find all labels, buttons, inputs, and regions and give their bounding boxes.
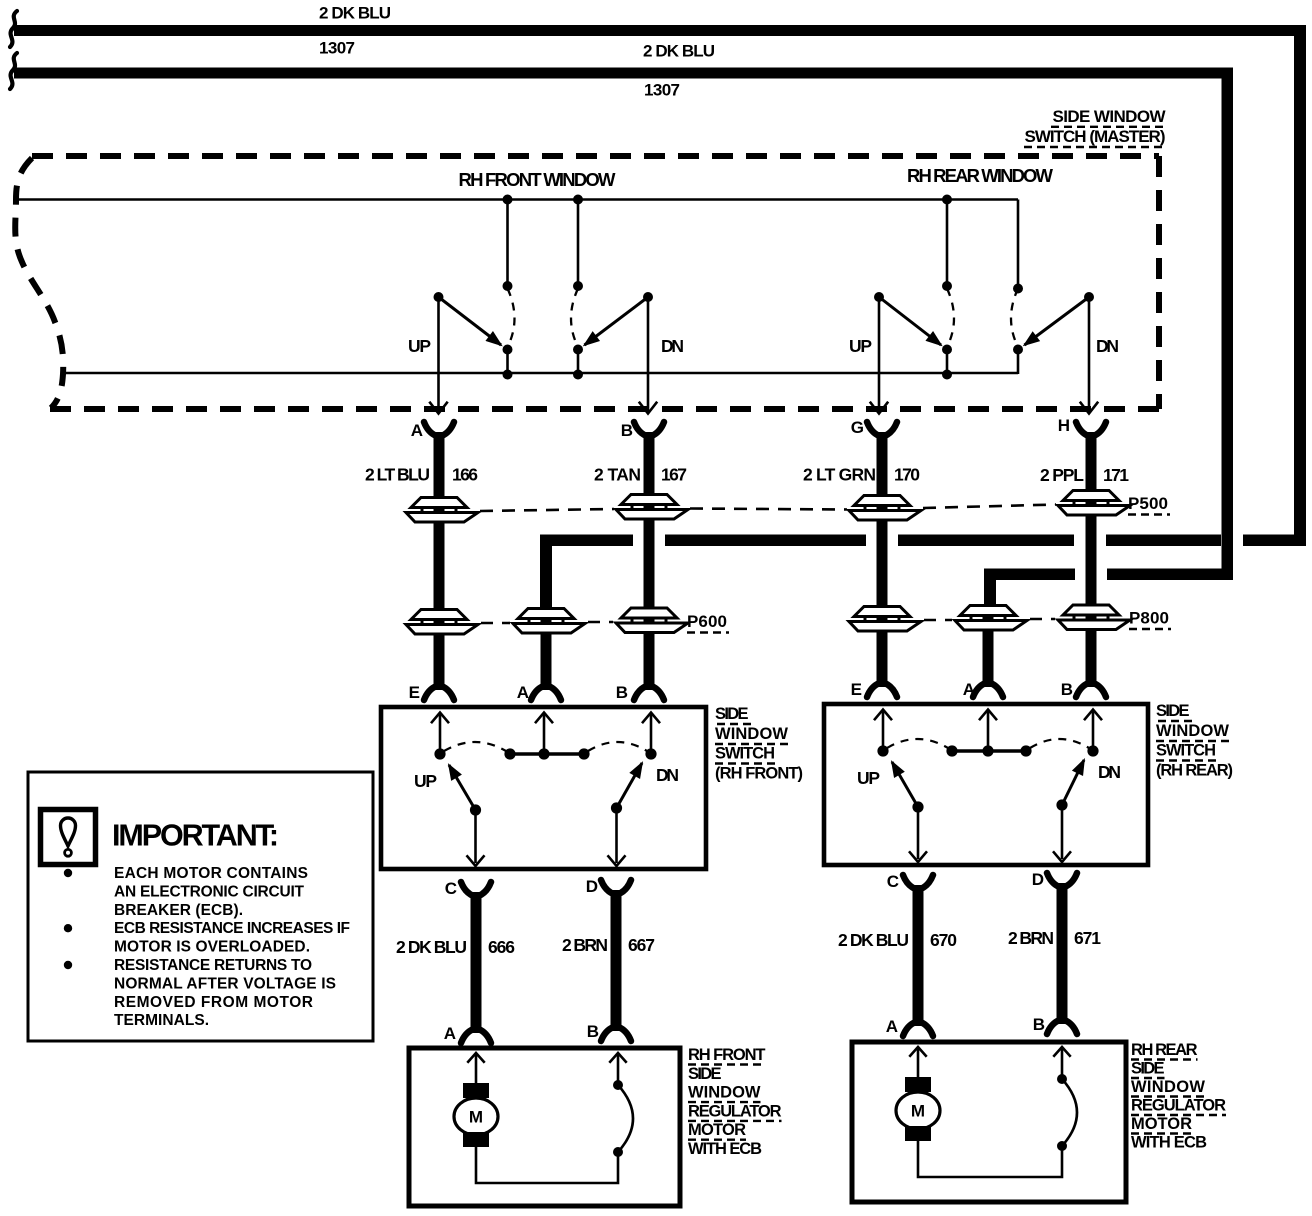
wire from terminal H down to P500: [1086, 442, 1097, 498]
wire 2 BRN 671 rear: [1057, 893, 1068, 1017]
svg-text:2 BRN: 2 BRN: [562, 935, 608, 955]
wire into side window switch at x=882: [877, 638, 888, 676]
master switch bus wire top horizontal: [17, 198, 1018, 201]
dashed travel arc front window pivot 2: [571, 289, 578, 348]
svg-text:B: B: [1033, 1015, 1045, 1034]
RH front side window regulator motor with ECB input arrow A: [475, 1055, 478, 1083]
important icon exclamation teardrop: [61, 818, 76, 846]
svg-text:SIDE: SIDE: [688, 1065, 722, 1083]
side window switch RH front blade arrow to DN: [617, 763, 643, 808]
connector P800 cavity E: [849, 607, 921, 632]
dashed underline P600: [687, 631, 729, 633]
motor M RH front side window regulator motor with ECB: [454, 1098, 498, 1135]
side window switch (master) dashed box bottom border: [50, 406, 1159, 412]
side window switch RH front input arrow terminal E: [439, 715, 442, 755]
side window switch RH rear blade arrow to DN: [1062, 760, 1084, 805]
wire W1 return horizontal segment 5: [1243, 535, 1306, 547]
svg-text:DN: DN: [656, 765, 679, 785]
side window switch (master) dashed box right border: [1156, 156, 1162, 409]
side window switch RH front blade arrow to UP: [449, 765, 476, 810]
terminal fork (male) at x=882: [867, 683, 880, 697]
RH front side window regulator motor with ECB input arrow B: [617, 1055, 620, 1085]
svg-text:E: E: [851, 680, 862, 699]
svg-text:SIDE: SIDE: [1156, 702, 1190, 720]
wire 2 DK BLU 670 rear: [913, 895, 924, 1019]
svg-text:671: 671: [1074, 928, 1101, 948]
wire W1 return horizontal segment 3: [898, 535, 1074, 547]
junction dot on top bus at rear window pivot 1: [942, 195, 952, 205]
svg-text:(RH REAR): (RH REAR): [1156, 762, 1233, 780]
side window switch RH front input arrow terminal B: [650, 715, 653, 755]
connector P500 cavity B: [616, 495, 688, 520]
side window switch RH rear contact dot E: [877, 745, 888, 756]
svg-text:2 BRN: 2 BRN: [1008, 928, 1054, 948]
svg-text:SWITCH: SWITCH: [1156, 742, 1216, 760]
side window switch RH front box: [381, 707, 706, 869]
terminal fork (male) at x=988: [973, 683, 986, 697]
side window switch RH front common dot C side: [470, 804, 481, 815]
side window switch RH rear link bar dot left: [946, 745, 957, 756]
important icon exclamation dot: [65, 849, 72, 856]
terminal B fork front: [601, 1027, 614, 1041]
side window switch RH front dashed travel arc DN: [588, 742, 647, 751]
master switch bus wire bottom horizontal: [65, 372, 1018, 375]
wire into side window switch at x=439: [434, 640, 445, 679]
svg-text:BREAKER (ECB).: BREAKER (ECB).: [114, 902, 243, 919]
svg-text:1307: 1307: [319, 39, 355, 58]
connector P600 cavity E: [406, 610, 478, 635]
wire W1 continuation squiggle at left: [10, 11, 17, 47]
svg-text:UP: UP: [857, 768, 880, 788]
wire rear pivot 2 contact to bottom bus corner: [1017, 350, 1020, 375]
svg-text:B: B: [587, 1022, 599, 1041]
side window switch RH rear common dot C side: [912, 801, 923, 812]
moving contact dot rear window pivot 1: [942, 345, 952, 355]
side window switch RH front input arrow terminal A: [543, 715, 546, 755]
terminal fork (male) at x=1091: [1076, 683, 1089, 697]
dashed travel arc rear window pivot 2: [1011, 289, 1018, 348]
side window switch RH rear input arrow terminal A: [987, 712, 990, 752]
svg-text:WINDOW: WINDOW: [715, 725, 788, 743]
terminal fork (male) at x=649: [634, 686, 647, 700]
wire terminal B through P500: [644, 495, 655, 612]
bullet point: [64, 924, 72, 932]
RH rear side window regulator motor with ECB input arrow B: [1061, 1049, 1064, 1079]
svg-text:UP: UP: [849, 336, 872, 356]
RH rear side window regulator motor with ECB motor brush bottom: [905, 1126, 931, 1141]
switch blade arrow front UP: [439, 297, 502, 345]
svg-text:RESISTANCE RETURNS TO: RESISTANCE RETURNS TO: [114, 957, 312, 974]
wire P600 B column: [644, 612, 655, 640]
connector P800 cavity A: [955, 606, 1027, 631]
junction dot on top bus at front window pivot 1: [503, 195, 513, 205]
svg-text:2 TAN: 2 TAN: [594, 465, 641, 485]
moving contact dot front window pivot 2: [573, 345, 583, 355]
wire from terminal B down to P500: [644, 442, 655, 498]
moving contact dot rear window pivot 2: [1013, 345, 1023, 355]
terminal D fork rear: [1047, 873, 1060, 887]
svg-text:WINDOW: WINDOW: [1156, 722, 1229, 740]
svg-text:DN: DN: [1096, 336, 1119, 356]
wire W1 return horizontal segment 1: [540, 535, 633, 547]
wire front window pivot 2 vertical: [577, 200, 580, 287]
terminal C fork rear: [903, 875, 916, 889]
dashed underline P800: [1129, 628, 1171, 630]
svg-text:666: 666: [488, 937, 515, 957]
wire front window pivot 1 contact to bottom bus: [506, 350, 509, 375]
wire terminal G through P500: [877, 496, 888, 612]
svg-text:SIDE: SIDE: [715, 705, 749, 723]
pivot dot front window pivot 2: [573, 281, 583, 291]
terminal fork (male) at x=439: [424, 686, 437, 700]
side window switch RH rear output arrow C: [917, 807, 920, 859]
connector P600 cavity A: [513, 609, 585, 634]
svg-text:REGULATOR: REGULATOR: [688, 1102, 782, 1120]
svg-text:167: 167: [661, 465, 687, 485]
bullet point: [64, 869, 72, 877]
svg-text:A: A: [963, 680, 975, 699]
RH front side window regulator motor with ECB ECB lower dot: [613, 1147, 623, 1157]
side window switch RH front common dot D side: [611, 802, 622, 813]
junction dot on bottom bus at front window pivot 1: [503, 370, 513, 380]
terminal G fork at master switch: [867, 422, 880, 436]
wire into side window switch at x=649: [644, 640, 655, 679]
side window switch RH front contact dot E: [434, 748, 445, 759]
side window switch RH rear blade arrow to UP: [892, 762, 918, 807]
dashed link P500 G-H: [923, 505, 1056, 509]
wire front window pivot 2 contact to bottom bus: [577, 350, 580, 375]
wire P600 A column: [541, 610, 552, 640]
wire rear window pivot 1 contact to bottom bus: [946, 350, 949, 375]
svg-text:170: 170: [894, 465, 920, 485]
terminal H fork at master switch: [1076, 422, 1089, 436]
svg-text:DN: DN: [1098, 762, 1121, 782]
svg-text:B: B: [616, 683, 628, 702]
svg-text:AN ELECTRONIC CIRCUIT: AN ELECTRONIC CIRCUIT: [114, 883, 305, 900]
side window switch RH rear dashed travel arc DN: [1030, 739, 1089, 748]
wire W1 right vertical: [1294, 25, 1306, 546]
wire front window pivot 1 vertical: [506, 200, 509, 287]
moving contact dot front window pivot 1: [503, 345, 513, 355]
dashed underline P500: [1128, 513, 1170, 515]
svg-text:TERMINALS.: TERMINALS.: [114, 1012, 209, 1029]
side window switch RH rear input arrow terminal B: [1092, 712, 1095, 752]
wire terminal H through P500: [1086, 491, 1097, 612]
svg-text:A: A: [411, 421, 423, 440]
svg-text:P500: P500: [1128, 494, 1168, 513]
svg-text:B: B: [1061, 680, 1073, 699]
side window switch RH rear contact dot B: [1087, 745, 1098, 756]
RH rear side window regulator motor with ECB motor brush top: [905, 1077, 931, 1092]
IMPORTANT note box: [28, 772, 373, 1041]
pivot dot rear window pivot 1: [942, 281, 952, 291]
side window switch RH rear contact dot A: [982, 745, 993, 756]
RH front side window regulator motor with ECB internal wire from motor to ECB: [476, 1147, 618, 1183]
svg-text:B: B: [621, 421, 633, 440]
svg-text:IMPORTANT:: IMPORTANT:: [112, 819, 279, 853]
RH front side window regulator motor with ECB ECB element arc: [618, 1085, 633, 1152]
svg-text:DN: DN: [661, 336, 684, 356]
RH rear side window regulator motor with ECB ECB lower dot: [1057, 1141, 1067, 1151]
dashed link P500 B-G: [690, 509, 847, 510]
dashed underline SWITCH (MASTER): [1024, 146, 1166, 148]
wire W2 return horizontal segment 1: [984, 569, 1075, 581]
svg-text:WITH ECB: WITH ECB: [688, 1140, 762, 1158]
connector P500 cavity H: [1058, 491, 1130, 516]
svg-text:ECB RESISTANCE INCREASES IF: ECB RESISTANCE INCREASES IF: [114, 920, 350, 937]
side window switch RH rear link bar dot right: [1020, 745, 1031, 756]
svg-text:RH FRONT: RH FRONT: [688, 1046, 766, 1064]
RH rear side window regulator motor with ECB ECB upper dot: [1057, 1074, 1067, 1084]
svg-text:A: A: [886, 1017, 898, 1036]
svg-text:G: G: [851, 418, 864, 437]
RH rear side window regulator motor with ECB ECB element arc: [1062, 1079, 1077, 1146]
svg-text:M: M: [469, 1108, 483, 1127]
wire rear DN contact to connector with arrowhead: [1088, 297, 1091, 411]
svg-text:2 DK BLU: 2 DK BLU: [838, 930, 909, 950]
svg-text:RH REAR: RH REAR: [1131, 1041, 1198, 1059]
connector P600 cavity B: [616, 608, 688, 633]
terminal B fork rear: [1047, 1020, 1060, 1034]
side window switch (master) dashed box top border: [32, 153, 1159, 159]
fixed contact dot rear UP: [874, 292, 884, 302]
wire W2 drop vertical to P800 A: [984, 569, 996, 613]
svg-text:M: M: [911, 1102, 925, 1121]
wire W2 return horizontal segment 2: [1107, 569, 1233, 581]
dashed travel arc rear window pivot 1: [947, 289, 954, 348]
side window switch RH front output arrow D: [615, 808, 618, 863]
svg-text:171: 171: [1103, 465, 1129, 485]
connector P500 cavity G: [849, 496, 921, 521]
svg-text:H: H: [1058, 416, 1070, 435]
svg-text:MOTOR IS OVERLOADED.: MOTOR IS OVERLOADED.: [114, 939, 310, 956]
svg-text:E: E: [409, 683, 420, 702]
svg-text:166: 166: [452, 465, 478, 485]
side window switch RH rear common dot D side: [1056, 799, 1067, 810]
svg-text:2 DK BLU: 2 DK BLU: [643, 42, 715, 61]
svg-text:UP: UP: [414, 771, 437, 791]
side window switch (master) dashed box wavy left border: [15, 158, 63, 408]
side window switch RH rear contact link bar: [952, 749, 1026, 753]
dashed underlines for RH FRONT switch label: [717, 723, 752, 725]
svg-text:2 PPL: 2 PPL: [1040, 465, 1084, 485]
switch blade arrow front DN: [585, 297, 649, 345]
terminal fork (male) at x=546: [531, 686, 544, 700]
wire W1 drop vertical to P600 A: [540, 535, 552, 613]
terminal A fork at master switch: [424, 422, 437, 436]
svg-text:MOTOR: MOTOR: [688, 1121, 746, 1139]
svg-text:REMOVED FROM MOTOR: REMOVED FROM MOTOR: [114, 994, 313, 1011]
dashed travel arc front window pivot 1: [508, 289, 515, 348]
side window switch RH rear box: [824, 704, 1148, 865]
wire 2 DK BLU 666 front: [471, 902, 482, 1026]
side window switch RH rear output arrow D: [1061, 805, 1064, 859]
wire W2 continuation squiggle at left: [10, 53, 17, 89]
terminal B fork at master switch: [634, 422, 647, 436]
svg-text:D: D: [586, 877, 598, 896]
fixed contact dot front UP: [434, 292, 444, 302]
dashed link P800 A-B: [1030, 618, 1055, 621]
fixed contact dot front DN: [643, 292, 653, 302]
bullet point: [64, 961, 72, 969]
junction dot on bottom bus at rear window pivot 1: [942, 370, 952, 380]
RH front side window regulator motor with ECB motor brush top: [463, 1083, 489, 1098]
wire P800 B column: [1086, 612, 1097, 638]
side window switch RH front output arrow C: [474, 810, 477, 863]
wire into side window switch at x=1091: [1086, 638, 1097, 676]
side window switch RH rear dashed travel arc UP: [887, 739, 948, 748]
svg-text:2 DK BLU: 2 DK BLU: [319, 4, 391, 23]
RH rear side window regulator motor with ECB input arrow A: [917, 1049, 920, 1077]
svg-text:2 DK BLU: 2 DK BLU: [396, 937, 467, 957]
RH rear side window regulator motor with ECB box: [852, 1042, 1126, 1202]
RH front side window regulator motor with ECB box: [409, 1048, 680, 1206]
svg-text:SIDE: SIDE: [1131, 1060, 1165, 1078]
wire rear window pivot 1 vertical: [946, 200, 949, 287]
svg-text:WINDOW: WINDOW: [688, 1084, 761, 1102]
connector P800 cavity B: [1058, 605, 1130, 630]
important icon box: [41, 810, 96, 865]
side window switch RH front contact dot A: [538, 748, 549, 759]
dashed underline SIDE WINDOW: [1051, 126, 1166, 128]
dashed underlines for RH REAR switch label: [1158, 720, 1193, 722]
wire W1 return horizontal segment 4: [1106, 535, 1221, 547]
svg-text:RH REAR WINDOW: RH REAR WINDOW: [907, 165, 1054, 186]
side window switch RH rear input arrow terminal E: [882, 712, 885, 752]
connector P500 cavity A: [406, 498, 478, 523]
RH rear side window regulator motor with ECB internal wire from motor to ECB: [918, 1141, 1062, 1177]
terminal A fork front: [461, 1029, 474, 1043]
svg-text:UP: UP: [408, 336, 431, 356]
svg-text:SIDE WINDOW: SIDE WINDOW: [1053, 107, 1167, 126]
wire front UP contact to connector with arrowhead: [437, 297, 440, 411]
wire rear window pivot 2 vertical from top bus corner: [1017, 200, 1020, 289]
svg-text:SWITCH (MASTER): SWITCH (MASTER): [1025, 127, 1166, 146]
wire into side window switch at x=988: [983, 638, 994, 676]
svg-text:P800: P800: [1129, 609, 1169, 628]
svg-text:A: A: [444, 1024, 456, 1043]
side window switch RH front link bar dot left: [504, 748, 515, 759]
terminal C fork front: [461, 882, 474, 896]
svg-text:NORMAL AFTER VOLTAGE IS: NORMAL AFTER VOLTAGE IS: [114, 975, 336, 992]
svg-text:WITH ECB: WITH ECB: [1131, 1134, 1207, 1152]
wire W2 right vertical: [1222, 68, 1234, 581]
motor M RH rear side window regulator motor with ECB: [896, 1092, 940, 1129]
terminal A fork rear: [903, 1022, 916, 1036]
svg-text:2 LT BLU: 2 LT BLU: [365, 465, 430, 485]
svg-text:670: 670: [930, 930, 957, 950]
svg-text:EACH MOTOR CONTAINS: EACH MOTOR CONTAINS: [114, 865, 308, 882]
svg-text:WINDOW: WINDOW: [1131, 1078, 1205, 1096]
wire P800 A column: [983, 610, 994, 638]
wire 2 BRN 667 front: [611, 900, 622, 1024]
wire P800 E column: [877, 612, 888, 638]
side window switch RH front contact link bar: [510, 752, 584, 756]
side window switch RH front dashed travel arc UP: [444, 742, 506, 751]
wire from terminal A down to P500: [434, 442, 445, 498]
wire front DN contact to connector with arrowhead: [647, 297, 650, 411]
dashed link P600 E-A: [481, 622, 510, 625]
side window switch RH front link bar dot right: [578, 748, 589, 759]
dashed link P600 A-B: [588, 621, 613, 624]
wire from terminal G down to P500: [877, 442, 888, 498]
svg-text:C: C: [887, 872, 899, 891]
svg-text:C: C: [445, 879, 457, 898]
junction dot on top bus at front window pivot 2: [573, 195, 583, 205]
wire rear UP contact to connector with arrowhead: [878, 297, 881, 411]
fixed contact dot rear DN: [1084, 292, 1094, 302]
svg-text:REGULATOR: REGULATOR: [1131, 1097, 1226, 1115]
wire terminal A through P500: [434, 498, 445, 612]
svg-text:(RH FRONT): (RH FRONT): [715, 765, 803, 783]
dashed link P500 A-B: [480, 509, 614, 511]
wire P600 E column: [434, 612, 445, 640]
RH front side window regulator motor with ECB ECB upper dot: [613, 1080, 623, 1090]
RH front side window regulator motor with ECB motor brush bottom: [463, 1132, 489, 1147]
svg-text:MOTOR: MOTOR: [1131, 1115, 1192, 1133]
svg-text:SWITCH: SWITCH: [715, 745, 775, 763]
wire into side window switch at x=546: [541, 640, 552, 679]
svg-text:RH FRONT WINDOW: RH FRONT WINDOW: [459, 169, 617, 190]
wire W2 2 DK BLU 1307 second horizontal: [14, 68, 1233, 79]
svg-text:A: A: [517, 683, 529, 702]
side window switch RH front contact dot B: [645, 748, 656, 759]
dashed link P800 E-A: [924, 619, 952, 622]
wire W1 return horizontal segment 2: [665, 535, 866, 547]
svg-text:2 LT GRN: 2 LT GRN: [803, 465, 876, 485]
svg-text:D: D: [1032, 870, 1044, 889]
terminal D fork front: [601, 880, 614, 894]
switch blade arrow rear UP: [879, 297, 941, 345]
svg-text:667: 667: [628, 935, 655, 955]
pivot dot rear window pivot 2: [1013, 284, 1023, 294]
pivot dot front window pivot 1: [503, 281, 513, 291]
wire W1 2 DK BLU 1307 top horizontal: [14, 25, 1306, 36]
junction dot on bottom bus at front window pivot 2: [573, 370, 583, 380]
switch blade arrow rear DN: [1025, 297, 1090, 345]
svg-text:P600: P600: [687, 612, 727, 631]
svg-text:1307: 1307: [644, 81, 680, 100]
